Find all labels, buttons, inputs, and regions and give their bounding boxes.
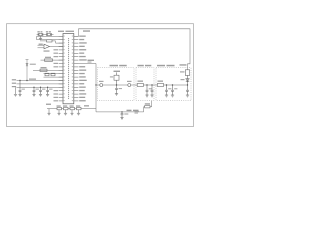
filter F1 center element — [114, 71, 121, 72]
bottom wire labels — [127, 110, 132, 111]
U1 refdes label — [58, 31, 64, 32]
gate label — [44, 50, 50, 51]
ground cluster g5 — [77, 110, 80, 115]
wire rail3 — [17, 86, 64, 88]
wire bottom long — [96, 101, 152, 112]
transistor Q1 / diode — [186, 75, 189, 85]
ground cluster g1 — [47, 109, 50, 115]
crystal Y1 label — [37, 31, 39, 32]
wire R3 — [33, 69, 63, 71]
module 1 label — [110, 65, 119, 67]
capacitor C10 bottom — [120, 112, 123, 120]
capacitor C10 label — [124, 113, 128, 114]
inductor L1 series — [137, 84, 143, 87]
dashed module box 3 — [156, 68, 191, 101]
U1 right net labels — [79, 36, 87, 102]
capacitor C1 — [18, 81, 21, 97]
junction dots left rails — [19, 80, 48, 88]
ground cluster g4 — [70, 110, 73, 115]
wire main RF line — [96, 84, 188, 86]
capacitor C6 — [150, 85, 153, 97]
node label rail2 — [12, 83, 16, 84]
resistor R2 label — [45, 57, 51, 58]
capacitor C3 — [39, 87, 42, 96]
inductor L2 series — [157, 84, 163, 87]
capacitor C7 — [165, 85, 168, 97]
capacitor C4 — [46, 87, 49, 96]
node label rail1 — [12, 79, 16, 80]
resistor R2 — [45, 59, 53, 61]
wire gate in1 — [38, 44, 45, 46]
wire R2 — [41, 59, 64, 61]
connector P2 ring — [128, 84, 131, 87]
resistor RN3 — [70, 107, 75, 109]
ground rail left — [14, 87, 17, 96]
capacitor C5 — [145, 85, 148, 97]
wire XTAL2 — [37, 36, 63, 39]
resistor R3 — [40, 69, 47, 71]
wire VCC rail — [17, 80, 64, 82]
module 2 label — [138, 65, 144, 67]
module 3 label — [157, 65, 165, 67]
ground cluster g3 — [64, 110, 67, 115]
resistor R3 label — [41, 67, 47, 68]
wire crystal mid link — [37, 34, 54, 36]
resistor R4 top right — [185, 70, 189, 76]
op-amp gate G1 — [44, 44, 50, 49]
node label rail3 — [12, 86, 16, 87]
crystal Y1 — [38, 33, 43, 36]
wire riser vertical — [95, 64, 97, 112]
wire row3 — [40, 41, 63, 43]
crystal Y2 label — [46, 31, 48, 32]
dashed module box 1 — [98, 68, 135, 101]
wire gate out — [50, 46, 64, 48]
U1 left pin labels — [54, 49, 59, 101]
dashed module box 2 — [136, 68, 154, 101]
U1 vertical part-name text — [68, 38, 70, 99]
wire IC pin9R to riser — [78, 63, 96, 65]
wire row13 — [44, 76, 64, 78]
junction dot riser — [95, 84, 96, 85]
U1 pins left — [59, 36, 63, 101]
wire bottom cluster — [47, 108, 96, 110]
U1 pins right — [74, 36, 79, 101]
node label rail1b — [29, 79, 36, 80]
node label VCC top — [83, 30, 90, 31]
capacitor C9 — [186, 85, 189, 97]
diode D1 label — [30, 64, 36, 65]
connector P1 ring — [100, 84, 103, 87]
node label riser — [88, 60, 95, 61]
bottom cluster labels — [46, 104, 89, 107]
wire VCC top feed — [74, 29, 190, 70]
resistor R-row3 — [47, 40, 53, 42]
resistor RN1 — [57, 107, 62, 109]
sheet border frame — [7, 24, 194, 127]
ground cluster g2 — [57, 110, 60, 115]
wire rail2 — [17, 83, 64, 85]
wire gate in2 — [38, 47, 45, 49]
node label feed — [180, 64, 187, 65]
capacitor labels — [36, 89, 39, 90]
node label row3 — [39, 44, 43, 45]
IC U1 microcontroller body — [63, 34, 74, 104]
jumper J3 — [51, 73, 55, 76]
diode D1 — [26, 60, 29, 81]
wire row12 — [44, 73, 64, 75]
U1 pin numbers — [63, 36, 73, 102]
jumper J2 — [45, 73, 49, 76]
resistor bottom series — [145, 106, 150, 108]
wire XTAL1 — [37, 35, 63, 37]
capacitor C8 — [171, 85, 174, 97]
resistor RN4 — [77, 107, 82, 109]
resistor RN2 — [64, 107, 69, 109]
crystal Y2 — [47, 33, 52, 36]
ground crystal — [39, 36, 42, 40]
capacitor C2 — [32, 87, 35, 96]
